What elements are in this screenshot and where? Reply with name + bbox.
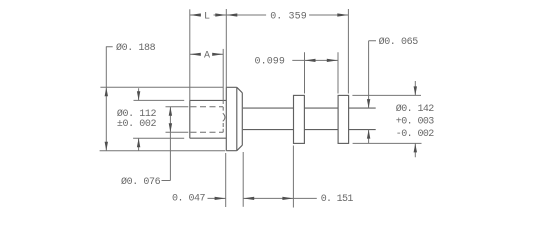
svg-text:0. 359: 0. 359 <box>270 11 307 22</box>
arrow 0.099 left <box>305 59 316 62</box>
svg-text:±0. 002: ±0. 002 <box>117 119 157 130</box>
extension line disc2-right up <box>347 9 349 94</box>
dimension dia 0.142 arrow lines <box>414 81 416 157</box>
extension line hole top left <box>166 106 189 108</box>
extension line hole-end (A) <box>222 49 224 104</box>
extension line body-left <box>189 9 191 100</box>
arrow L left <box>190 13 201 16</box>
arrow dia0.076 top <box>169 107 172 116</box>
extension line flange top left <box>100 86 223 88</box>
arrow dia0.142 top <box>414 86 417 95</box>
arrow dia0.188 top <box>105 87 108 96</box>
svg-text:+0. 003: +0. 003 <box>396 116 434 127</box>
arrow dia0.188 bottom <box>105 142 108 151</box>
dimension A line <box>190 53 223 55</box>
arrow A right <box>212 53 223 56</box>
arrow 0.359 left <box>226 13 237 16</box>
extension line body bottom left <box>133 137 184 139</box>
svg-text:-0. 002: -0. 002 <box>396 129 434 140</box>
arrow 0.047-0.151 shared <box>243 197 254 200</box>
dimension dia 0.112 arrow lines <box>138 88 140 150</box>
arrow 0.359 right <box>337 13 348 16</box>
body cylinder (shank) outline <box>190 100 227 138</box>
arrow dia0.076 bottom <box>169 123 172 132</box>
svg-text:L: L <box>204 11 210 22</box>
dimension dia 0.188 line <box>106 47 113 151</box>
extension line disc2-left up <box>337 52 339 93</box>
extension line hole bottom left <box>166 131 189 133</box>
arrow 0.099 right <box>327 59 338 62</box>
arrow A left <box>190 53 201 56</box>
extension line disc top right <box>352 94 421 96</box>
svg-text:A: A <box>204 51 210 62</box>
extension line flange bottom left <box>100 150 226 152</box>
extension line disc bottom right <box>353 142 422 144</box>
extension line flange-left down <box>225 153 227 207</box>
arrow dia0.065 bottom <box>367 130 370 139</box>
arrow dia0.142 bottom <box>414 143 417 152</box>
extension line disc1-right up <box>304 52 306 93</box>
dimension 0.359 line <box>226 14 348 16</box>
svg-text:0. 151: 0. 151 <box>321 194 354 205</box>
svg-text:Ø0. 112: Ø0. 112 <box>117 108 157 120</box>
arrowheads <box>105 13 417 200</box>
arrow dia0.112 top <box>137 91 140 100</box>
disc 2 (second collar) <box>338 95 349 143</box>
hidden hole (dashed bore) <box>191 107 225 133</box>
pin (lead) <box>243 108 376 130</box>
dimension 0.047-0.151 line <box>208 197 317 199</box>
svg-text:0. 047: 0. 047 <box>172 194 206 205</box>
svg-text:Ø0. 076: Ø0. 076 <box>121 176 161 188</box>
extension line body top left <box>134 99 185 101</box>
disc 1 (first collar) <box>294 95 305 143</box>
flange (head) outline <box>226 87 242 150</box>
dimension L line <box>190 14 227 16</box>
arrow 0.151 right <box>282 197 293 200</box>
dimension dia 0.065 leader <box>369 41 376 144</box>
extension line flange-left up <box>225 9 227 87</box>
arrow L right <box>215 13 226 16</box>
dimension 0.099 line <box>292 59 338 61</box>
extension line flange-right down <box>242 152 244 207</box>
svg-text:Ø0. 142: Ø0. 142 <box>396 103 434 115</box>
arrow dia0.112 bottom <box>137 138 140 147</box>
svg-text:0.099: 0.099 <box>255 57 286 68</box>
svg-text:Ø0. 065: Ø0. 065 <box>379 36 419 48</box>
arrow dia0.065 top <box>367 99 370 108</box>
svg-text:Ø0. 188: Ø0. 188 <box>116 42 156 54</box>
extension line disc1-left down <box>292 146 294 208</box>
dimension dia 0.076 line <box>162 107 171 181</box>
arrow 0.047 left <box>215 197 226 200</box>
